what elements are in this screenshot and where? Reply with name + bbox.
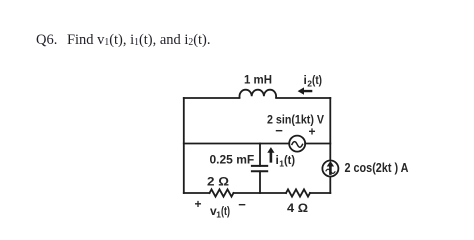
wire right vertical lower <box>329 177 331 193</box>
wire bottom middle segment <box>234 192 287 194</box>
svg-text:(t): (t) <box>221 204 230 218</box>
svg-text:2 cos(2kt ) A: 2 cos(2kt ) A <box>345 161 409 175</box>
inductor L1 1 mH <box>240 90 277 98</box>
svg-text:+: + <box>194 197 201 211</box>
voltage source sine symbol <box>292 142 303 148</box>
current source I1 circle <box>322 161 338 177</box>
svg-text:0.25 mF: 0.25 mF <box>210 153 255 167</box>
wire middle horizontal right of source <box>305 143 330 145</box>
svg-text:−: − <box>275 123 283 138</box>
wire middle horizontal left of source <box>184 143 289 145</box>
svg-text:(t): (t) <box>284 153 295 167</box>
wire middle branch lower <box>259 171 261 193</box>
title text <box>36 32 211 49</box>
wire bottom left segment <box>184 192 210 194</box>
svg-text:2 Ω: 2 Ω <box>207 175 229 189</box>
wire top right segment <box>276 97 330 99</box>
current source arrow <box>327 161 334 175</box>
wire left vertical <box>183 98 185 193</box>
capacitor C1 top plate <box>252 165 267 167</box>
wire middle branch upper <box>259 144 261 166</box>
svg-text:4 Ω: 4 Ω <box>287 201 308 215</box>
voltage source V1 circle <box>289 136 305 152</box>
svg-text:−: − <box>238 197 246 212</box>
wire right vertical upper <box>329 98 331 160</box>
wire top left segment <box>184 97 240 99</box>
wire bottom right segment <box>310 192 330 194</box>
resistor R1 2 ohm zigzag <box>210 189 234 196</box>
svg-text:1 mH: 1 mH <box>244 72 272 86</box>
capacitor C1 bottom plate <box>252 170 267 172</box>
i2 current arrow <box>298 87 313 94</box>
resistor R2 4 ohm zigzag <box>286 189 310 196</box>
svg-text:+: + <box>308 124 315 138</box>
svg-text:(t): (t) <box>312 73 322 87</box>
i1 current arrow <box>267 147 274 163</box>
current source tilde <box>326 169 336 173</box>
